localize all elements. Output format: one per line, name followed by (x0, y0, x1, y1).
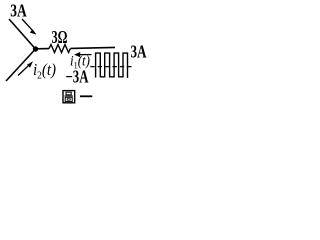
caption glyph 圖 (Figure) drawn manually (63, 91, 75, 103)
svg-text:i2(t): i2(t) (33, 60, 56, 82)
caption stroke 一 (one) (80, 95, 92, 97)
svg-text:3A: 3A (131, 42, 147, 62)
waveform: bipolar square wave of i1 (96, 53, 128, 78)
current arrow for i2 (18, 61, 33, 75)
svg-text:3A: 3A (10, 1, 27, 21)
wire lower-left diagonal (6, 49, 36, 81)
resistor 3ohm zigzag (49, 45, 71, 53)
node junction dot (33, 46, 38, 51)
wire horizontal from resistor to right end (71, 47, 116, 48)
current arrow i1 (pointing left, below wire) (74, 52, 92, 57)
current arrow for 3A (22, 19, 37, 35)
wire upper-left diagonal (9, 19, 36, 49)
wire horizontal from node to resistor (36, 48, 50, 50)
svg-text:−3A: −3A (66, 67, 89, 87)
svg-text:3Ω: 3Ω (52, 27, 68, 47)
waveform time axis (dashed) (90, 66, 131, 68)
